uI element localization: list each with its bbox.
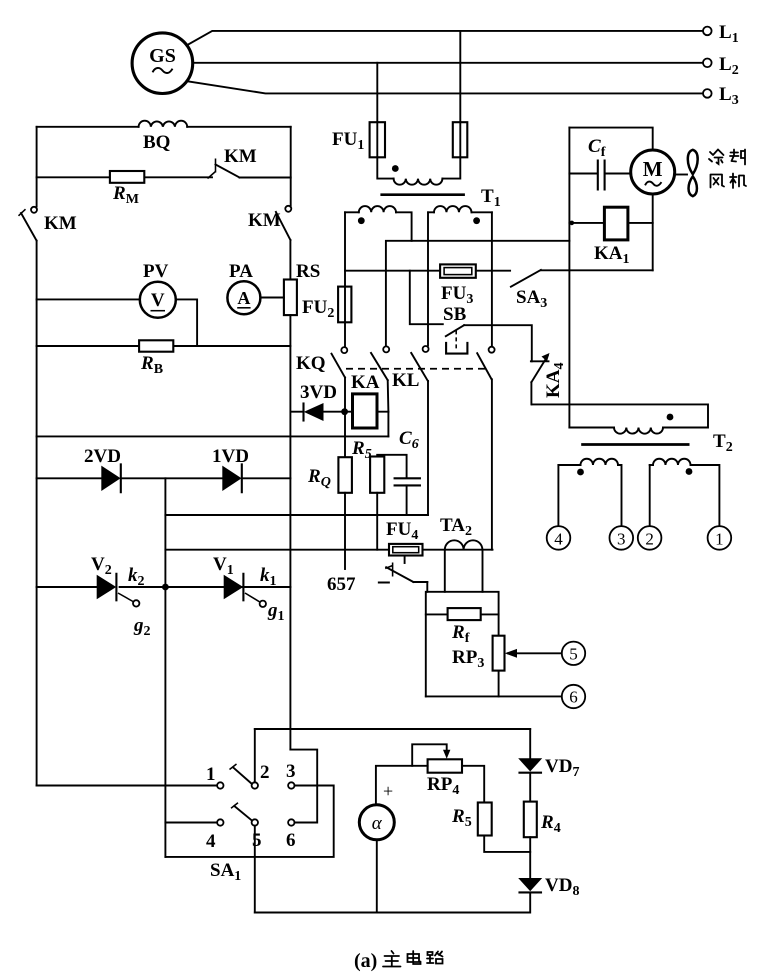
wire contact 4 feed bbox=[165, 822, 217, 824]
wire contact 5 down to bottom row bbox=[254, 826, 256, 913]
diode VD7 bbox=[518, 758, 542, 771]
wire 657 row to FU4 bbox=[165, 549, 389, 551]
wire phase L1 from GS bbox=[187, 31, 703, 46]
wire box bottom edge (SA3 feed) bbox=[569, 269, 652, 271]
contact KA bbox=[383, 346, 389, 352]
svg-text:6: 6 bbox=[286, 830, 296, 851]
wire diode row y478 bbox=[37, 477, 291, 479]
wire tap from L2 down to FU1 left bbox=[376, 63, 378, 122]
current transformer TA2 bbox=[445, 540, 483, 549]
thyristor V1 bbox=[224, 575, 244, 599]
wire T1 sec-b left lead down to contact KL bbox=[427, 212, 429, 345]
svg-text:1: 1 bbox=[715, 529, 724, 548]
wire box bottom to terminal 6 bbox=[426, 695, 562, 697]
fuse FU1 (left cartridge) bbox=[370, 122, 385, 157]
diode 1VD bbox=[222, 466, 241, 491]
wire SA1 feed row to contact 1 bbox=[37, 785, 218, 787]
terminal L3 bbox=[703, 89, 712, 98]
node KA coil left junction bbox=[341, 408, 348, 415]
resistor R4 bbox=[524, 802, 537, 838]
wire RP4 right to R5 bbox=[462, 766, 484, 803]
svg-text:SB: SB bbox=[443, 304, 467, 325]
wire right rail KM to RS bbox=[289, 240, 291, 280]
wire tap from L1 down to FU1 right bbox=[459, 31, 461, 122]
wire right rail top bbox=[290, 127, 292, 206]
svg-text:KL: KL bbox=[392, 370, 419, 391]
resistor RM bbox=[110, 171, 144, 183]
T1 secondary b polarity dot bbox=[473, 217, 480, 224]
contact KQ bbox=[341, 347, 347, 353]
wire meter bottom bbox=[376, 840, 378, 913]
T2 secondary b polarity dot bbox=[686, 468, 693, 475]
fuse FU1 (right cartridge) bbox=[453, 122, 468, 157]
terminal circle 1 bbox=[708, 526, 732, 550]
svg-text:3: 3 bbox=[617, 529, 626, 548]
svg-text:5: 5 bbox=[252, 830, 262, 851]
wire control row y729 to rectifier bridge bbox=[255, 728, 530, 730]
wire mid tap rail x165 bbox=[164, 478, 166, 857]
wire KL blade down to RC bottom line bbox=[427, 381, 429, 515]
wire top row corner down to VD7 bbox=[529, 729, 531, 759]
relay contact KA4 bbox=[531, 360, 549, 362]
wire contact 2 up to control row bbox=[254, 729, 256, 782]
wire right rail RS down to SA1 jog bbox=[289, 315, 291, 749]
wire R5 bottom down to FU4 line bbox=[376, 493, 378, 550]
svg-text:V: V bbox=[151, 290, 165, 311]
thyristor V2 bbox=[97, 575, 117, 599]
fuse FU2 bbox=[338, 287, 351, 323]
pushbutton SB actuator bracket bbox=[446, 343, 467, 354]
motor M bbox=[631, 150, 675, 194]
svg-text:A: A bbox=[237, 288, 250, 308]
T1 secondary a polarity dot bbox=[358, 217, 365, 224]
wire RQ bottom stub 657 bbox=[344, 493, 346, 569]
svg-text:3VD: 3VD bbox=[300, 382, 337, 403]
wire KQ blade to junction and down bbox=[344, 378, 346, 458]
svg-text:2: 2 bbox=[260, 762, 270, 783]
ammeter PA bbox=[227, 281, 260, 314]
T1 primary polarity dot bbox=[392, 165, 399, 172]
wire switch to feedback box corner bbox=[426, 582, 428, 592]
resistor RS (shunt) bbox=[284, 280, 297, 316]
svg-text:+: + bbox=[383, 781, 393, 801]
contact SA1-3 bbox=[288, 782, 294, 788]
wire SB to KA4 bbox=[464, 325, 532, 361]
wire left vertical rail bbox=[36, 127, 38, 207]
resistor RQ bbox=[338, 457, 352, 493]
wire K4 blade down to TA2 line bbox=[491, 379, 493, 549]
resistor R5 (bottom) bbox=[478, 803, 492, 836]
svg-text:KM: KM bbox=[248, 210, 281, 231]
contact KM left rail bbox=[31, 207, 37, 213]
label cooling fan (CJK) 冷 bbox=[709, 150, 724, 165]
contact SA1-1 bbox=[217, 782, 223, 788]
caption CJK 主 bbox=[383, 951, 401, 967]
wire VD7 to R4 bbox=[529, 773, 531, 802]
svg-text:GS: GS bbox=[149, 45, 176, 67]
svg-text:KM: KM bbox=[44, 213, 77, 234]
diode 3VD bbox=[291, 411, 304, 413]
wire PV right down to RB row bbox=[176, 299, 197, 346]
wire TA2 secondary leads bbox=[445, 550, 483, 592]
wire SB branch from FU3 line bbox=[410, 271, 443, 325]
svg-text:657: 657 bbox=[327, 574, 356, 595]
diode VD8 bbox=[518, 878, 542, 891]
pushbutton SB actuator dashed stem bbox=[455, 330, 457, 350]
wire FU2 bottom to contact KQ bbox=[344, 322, 346, 346]
svg-text:KQ: KQ bbox=[296, 353, 326, 374]
wire VD8 down and bottom row bbox=[255, 892, 530, 912]
voltmeter PV bbox=[140, 282, 176, 318]
terminal circle 5 bbox=[562, 642, 585, 665]
wire R4 to VD8 bbox=[529, 837, 531, 878]
wire thyristor row y587 bbox=[37, 586, 291, 588]
wire left box top edge bbox=[37, 126, 291, 128]
svg-text:4: 4 bbox=[554, 529, 563, 548]
resistor Rf bbox=[426, 613, 499, 615]
T2 core bar bbox=[581, 443, 689, 446]
svg-text:PA: PA bbox=[229, 261, 253, 282]
wire FU4 to TA2 bbox=[423, 549, 493, 551]
wire phase L2 from GS bbox=[193, 62, 703, 64]
svg-text:3: 3 bbox=[286, 761, 296, 782]
svg-text:2: 2 bbox=[645, 529, 654, 548]
svg-text:M: M bbox=[643, 157, 663, 181]
mechanical linkage dashed line bbox=[346, 368, 487, 370]
contact SA1-6 bbox=[288, 819, 294, 825]
resistor R5 (grid) bbox=[370, 457, 384, 493]
caption CJK 路 bbox=[427, 952, 443, 964]
svg-text:1VD: 1VD bbox=[212, 446, 249, 467]
wire SA1 bottom edge loop to contact 3 bbox=[165, 786, 333, 857]
inductor BQ bbox=[139, 121, 188, 127]
wire phase L3 from GS bbox=[189, 82, 703, 94]
svg-text:PV: PV bbox=[143, 261, 169, 282]
wire C6 bottom lead bbox=[406, 485, 408, 515]
relay coil KA bbox=[353, 394, 378, 428]
svg-text:2VD: 2VD bbox=[84, 446, 121, 467]
wire motor box top edge bbox=[569, 128, 652, 150]
wire T1 sec-a left lead down to FU2 bbox=[344, 212, 346, 286]
wire R5 top to C6 top bbox=[377, 455, 406, 477]
wire R5 bottom to junction bbox=[484, 836, 530, 852]
wire long horizontal at y436 from left box to KA tap bbox=[37, 435, 389, 437]
svg-text:KM: KM bbox=[224, 146, 257, 167]
wire k1 rail jog to contact 6 bbox=[290, 750, 317, 823]
contact KM (row, normally open) bbox=[216, 165, 240, 178]
label cooling fan (CJK) 却 bbox=[730, 150, 745, 165]
svg-text:BQ: BQ bbox=[143, 132, 170, 153]
wire PV left bbox=[37, 298, 140, 300]
T2 secondary winding b (right) bbox=[650, 464, 653, 466]
T1 core bar bbox=[380, 193, 465, 196]
svg-text:5: 5 bbox=[569, 645, 578, 664]
wire FU3 line from FU2 wire to SA3 bbox=[345, 270, 510, 272]
contact K4 (linked) bbox=[489, 347, 495, 353]
T1 secondary winding b (right) bbox=[428, 211, 434, 213]
terminal circle 6 bbox=[562, 685, 585, 708]
T1 secondary winding a (left) bbox=[345, 211, 359, 213]
relay coil KA1 bbox=[604, 207, 628, 240]
wire T1 sec-b right lead down to contact K4 bbox=[491, 212, 493, 346]
svg-text:RS: RS bbox=[296, 261, 320, 282]
wiper arrow from terminal 5 into RP3 bbox=[508, 652, 562, 654]
svg-text:4: 4 bbox=[206, 831, 216, 852]
meter alpha bbox=[359, 805, 394, 840]
diode 2VD bbox=[101, 466, 120, 491]
wire M bottom to box bottom bbox=[652, 194, 654, 270]
node thyristor junction bbox=[162, 584, 169, 591]
wire lead to terminal 2 bbox=[649, 465, 651, 526]
wire motor box left rail bbox=[568, 128, 570, 428]
fuse FU3 bbox=[440, 264, 476, 277]
caption CJK 电 bbox=[408, 951, 421, 964]
wire RP4 left to meter bbox=[376, 766, 428, 805]
contact SA1-2 bbox=[252, 782, 258, 788]
switch SA3 bbox=[511, 270, 541, 287]
generator GS bbox=[132, 33, 193, 94]
wire RB row bbox=[37, 345, 291, 347]
svg-text:α: α bbox=[372, 813, 383, 834]
label cooling fan (CJK) 风 bbox=[711, 175, 725, 188]
wire left rail down to SA1 row bbox=[36, 241, 38, 786]
svg-text:KA: KA bbox=[351, 372, 380, 393]
RP4 wiper arm (rheostat strap) bbox=[412, 744, 447, 766]
contact SA1-5 bbox=[252, 819, 258, 825]
wire lead to terminal 4 bbox=[557, 465, 559, 526]
contact KL bbox=[423, 346, 429, 352]
contact SA1-4 bbox=[217, 819, 223, 825]
terminal circle 4 bbox=[547, 526, 571, 550]
resistor RB bbox=[139, 340, 173, 351]
pushbutton SB blade bbox=[446, 325, 464, 336]
svg-text:6: 6 bbox=[569, 688, 578, 707]
capacitor C6 bbox=[395, 478, 420, 485]
svg-text:(a): (a) bbox=[354, 950, 377, 972]
terminal L2 bbox=[703, 59, 712, 68]
wire RM row bbox=[37, 176, 291, 178]
svg-text:1: 1 bbox=[206, 764, 216, 785]
blade SA1 4-5 bbox=[234, 806, 252, 821]
transformer T2 primary bbox=[532, 404, 708, 427]
terminal circle 3 bbox=[610, 526, 634, 550]
fan propeller bbox=[675, 174, 687, 176]
contact KM right rail bbox=[285, 206, 291, 212]
wire cross line from KA contact up-right to motor box bbox=[386, 241, 570, 346]
fuse FU4 bbox=[389, 544, 423, 556]
wire PA to RS bbox=[260, 297, 284, 299]
blade SA1 1-2 bbox=[233, 767, 252, 784]
capacitor Cf bbox=[569, 173, 630, 175]
terminal circle 2 bbox=[638, 526, 662, 550]
T2 secondary a polarity dot bbox=[577, 469, 584, 476]
feedback box outline (Rf / RP3 loop) bbox=[426, 592, 499, 697]
wire RC bottom line y515 bbox=[165, 514, 428, 516]
switch below FU4 (disconnect) bbox=[404, 556, 406, 564]
T2 secondary winding a (left) bbox=[558, 464, 580, 466]
potentiometer RP4 bbox=[428, 759, 462, 772]
label cooling fan (CJK) 机 bbox=[730, 174, 746, 189]
wire KA blade down to coil right tap bbox=[387, 380, 390, 436]
transformer T1 primary winding bbox=[377, 157, 393, 178]
T2 primary polarity dot bbox=[667, 414, 674, 421]
potentiometer RP3 bbox=[493, 636, 505, 671]
terminal L1 bbox=[703, 27, 712, 36]
